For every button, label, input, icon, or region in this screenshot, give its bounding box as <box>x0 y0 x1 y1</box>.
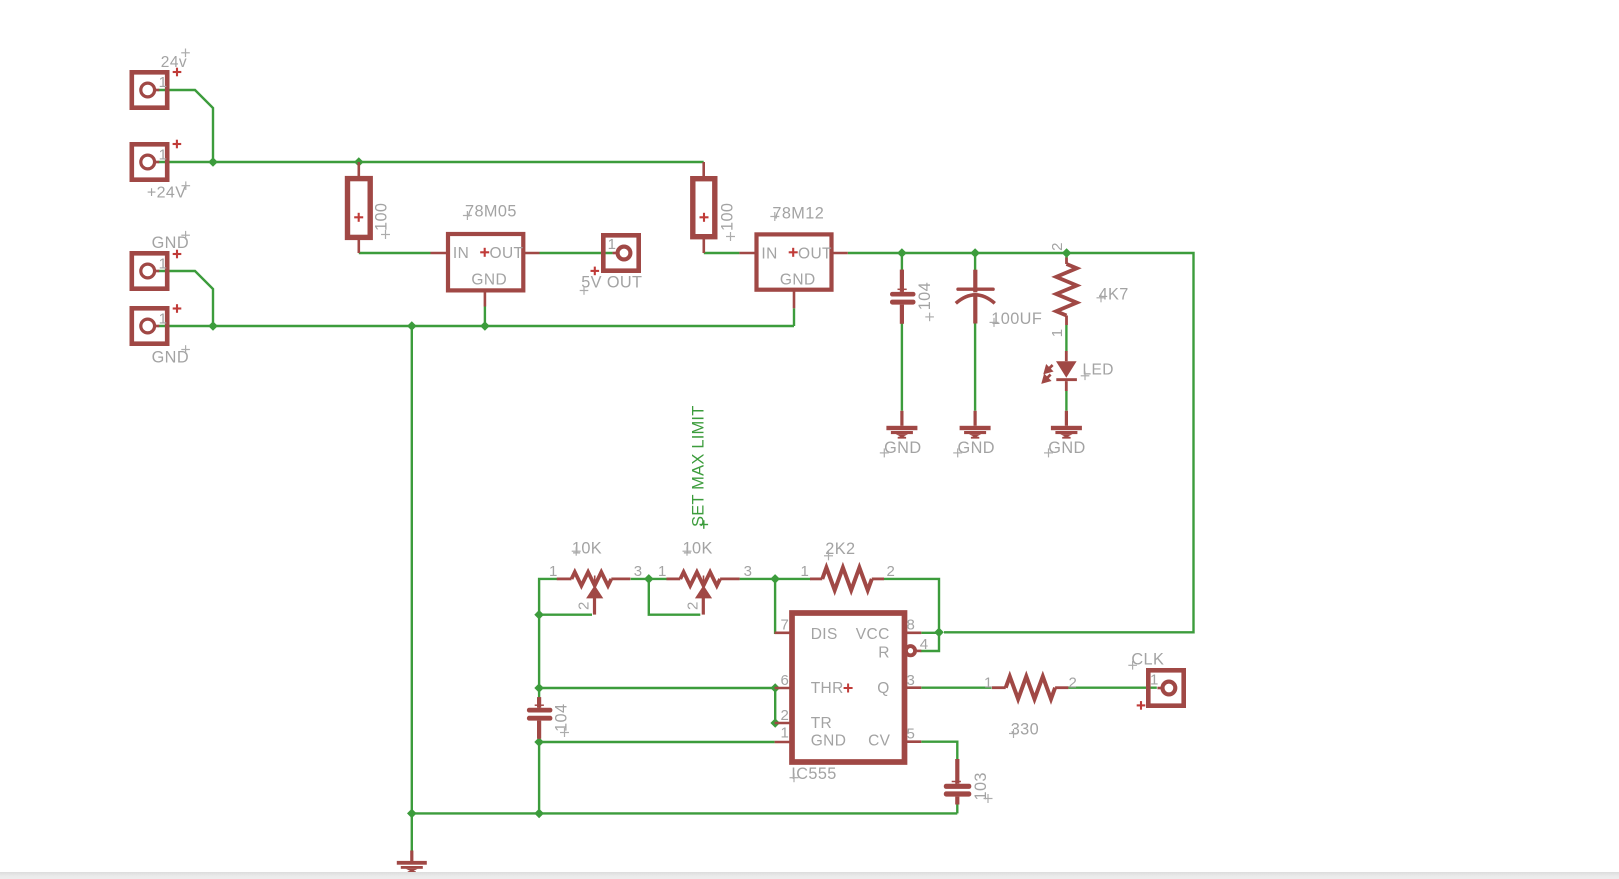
svg-text:3: 3 <box>634 563 643 580</box>
potentiometer POT2 10K body <box>667 572 740 615</box>
svg-text:2: 2 <box>576 601 593 610</box>
wire C1 bottom to GND <box>901 324 903 411</box>
svg-text:5V OUT: 5V OUT <box>581 274 642 292</box>
svg-text:+24V: +24V <box>147 185 186 202</box>
wire DIS node down to pin 7 <box>774 579 777 633</box>
wire VCC node to pin 8 <box>921 632 939 634</box>
label GND (C2) <box>953 439 995 458</box>
voltage regulator U1 78M05 body <box>448 234 524 290</box>
pin labels POT2 <box>658 563 752 610</box>
svg-text:8: 8 <box>907 617 916 634</box>
label 2K2 <box>824 540 855 560</box>
svg-text:3: 3 <box>744 563 753 580</box>
svg-text:1: 1 <box>549 563 558 580</box>
ground GND (under C2) <box>960 411 991 439</box>
pin OUT of U2 <box>832 252 848 255</box>
svg-text:SET MAX LIMIT: SET MAX LIMIT <box>690 406 708 527</box>
wire 78M05 GND to rail <box>484 307 486 327</box>
wire 78M05 OUT to 5V OUT pad <box>540 252 613 254</box>
label 330 <box>1009 721 1039 739</box>
label +24V <box>147 140 190 202</box>
label 4K7 <box>1097 285 1129 303</box>
svg-text:3: 3 <box>907 672 916 689</box>
svg-text:5: 5 <box>907 726 916 743</box>
svg-text:GND: GND <box>471 271 507 288</box>
svg-text:1: 1 <box>1049 329 1066 338</box>
resistor R4 330 body <box>992 676 1069 699</box>
svg-text:1: 1 <box>159 74 168 91</box>
svg-text:2: 2 <box>781 707 790 724</box>
wire THR net horizontal <box>539 687 775 689</box>
label 100UF <box>990 310 1043 328</box>
svg-text:R: R <box>878 644 890 661</box>
timer IC555 body <box>792 613 905 762</box>
svg-text:78M12: 78M12 <box>772 204 824 222</box>
wire POT1 wiper loop <box>539 614 592 616</box>
svg-text:1: 1 <box>984 675 993 692</box>
svg-text:24v: 24v <box>161 54 187 71</box>
node junction GND at 78M05 <box>480 321 490 331</box>
svg-text:104: 104 <box>553 704 571 732</box>
pin labels R4 <box>984 675 1077 692</box>
connector pad P2 "+24V" pin 1 <box>132 144 168 179</box>
pin 5 CV <box>905 726 922 743</box>
svg-text:OUT: OUT <box>798 245 832 262</box>
pin OUT of U1 <box>523 252 539 255</box>
svg-text:78M05: 78M05 <box>465 203 517 221</box>
label 104 (C3) <box>553 704 571 737</box>
svg-text:4: 4 <box>920 636 929 653</box>
svg-text:GND: GND <box>152 348 189 366</box>
svg-text:1: 1 <box>781 725 790 742</box>
connector pad 5V OUT pin 1 <box>603 235 638 270</box>
label GND (C1) <box>880 439 922 458</box>
node junction THR at C3 column <box>534 683 544 693</box>
wire CV net to C4 <box>921 742 957 759</box>
resistor R2 100 body <box>693 162 715 253</box>
ground GND (under LED) <box>1051 411 1082 439</box>
label IC555 <box>790 765 837 783</box>
pin IN of U2 <box>739 252 756 255</box>
wire pot chain left drop <box>539 579 557 686</box>
pin labels POT1 <box>549 563 643 610</box>
node junction VCC node <box>934 628 944 638</box>
wire C1 top lead <box>901 253 903 270</box>
wire R5 top lead <box>1065 253 1067 258</box>
node junction 12V at C2 <box>970 248 980 258</box>
ground earth (bottom) <box>397 851 427 873</box>
svg-text:IN: IN <box>453 245 469 262</box>
pin 2 TR <box>775 707 792 724</box>
bottom scrollbar strip <box>0 872 1619 879</box>
wire LED cathode to GND <box>1065 391 1067 411</box>
svg-text:1: 1 <box>159 311 168 328</box>
potentiometer POT1 10K body <box>557 572 631 615</box>
svg-text:GND: GND <box>958 439 995 457</box>
svg-text:1: 1 <box>608 236 617 253</box>
node junction bottom rail at C3 column <box>534 809 544 819</box>
svg-text:CLK: CLK <box>1131 651 1164 669</box>
node junction DIS node <box>770 574 780 584</box>
pin 6 THR <box>775 672 792 689</box>
label LED <box>1081 362 1114 381</box>
svg-text:GND: GND <box>780 271 816 288</box>
wire GND555 net to pin 1 <box>539 741 775 743</box>
wire 2K2 node to R3 pin 1 <box>775 578 810 580</box>
wire R5 to LED <box>1065 325 1067 352</box>
svg-text:6: 6 <box>781 672 790 689</box>
pin 3 Q <box>905 672 922 689</box>
pin 4 R (inverted) <box>906 636 929 655</box>
wire THR to TR vertical <box>774 688 776 723</box>
node junction +24V at R1 <box>354 157 364 167</box>
svg-text:103: 103 <box>972 772 990 800</box>
node junction between potentiometers <box>644 574 654 584</box>
svg-text:GND: GND <box>811 732 847 749</box>
capacitor C3 104 body <box>527 697 553 739</box>
connector pad P4 "GND" pin 1 <box>132 308 168 343</box>
capacitor C2 100UF body <box>956 270 995 324</box>
node junction bottom rail at earth column <box>407 809 417 819</box>
wire C3 bottom lead <box>538 739 540 814</box>
label 10K (POT1) <box>572 539 602 557</box>
node junction TR at pin 2 <box>770 718 780 728</box>
wire C2 bottom to GND <box>974 323 976 411</box>
svg-text:GND: GND <box>884 439 921 457</box>
label 5V OUT <box>580 267 643 295</box>
wire R2 to 78M12 IN <box>704 252 740 254</box>
svg-text:330: 330 <box>1011 721 1039 739</box>
wire GND rail <box>159 325 795 327</box>
connector pad P3 "GND" pin 1 <box>132 253 168 288</box>
wire POT2 pin3 to 2K2 node <box>740 578 776 580</box>
label 10K (POT2) <box>683 539 713 557</box>
resistor R1 100 body <box>348 162 371 253</box>
svg-text:2: 2 <box>1069 675 1078 692</box>
wire C4 bottom to rail <box>956 804 958 813</box>
label 78M05 <box>463 203 517 221</box>
label SET MAX LIMIT <box>690 406 709 529</box>
pin labels R5 <box>1049 242 1066 337</box>
resistor R3 2K2 body <box>810 568 884 591</box>
svg-text:2: 2 <box>887 563 896 580</box>
node junction GND555 at C3 <box>534 737 544 747</box>
capacitor C4 103 body <box>944 759 972 805</box>
svg-text:TR: TR <box>811 715 832 732</box>
label 24v <box>161 49 190 77</box>
wire 12V rail from 78M12 OUT <box>848 253 1194 632</box>
svg-text:IN: IN <box>761 245 777 262</box>
svg-text:CV: CV <box>868 732 891 749</box>
wire bottom GND rail <box>412 812 958 814</box>
wire +24V from pad P1 to main rail <box>159 90 214 160</box>
svg-text:Q: Q <box>877 680 889 697</box>
svg-text:DIS: DIS <box>811 626 838 643</box>
node junction 12V at C1 <box>897 248 907 258</box>
wire +24V top rail <box>159 161 704 163</box>
wire POT2 wiper loop <box>649 579 701 615</box>
resistor R5 4K7 body <box>1056 258 1077 326</box>
voltage regulator U2 78M12 body <box>757 234 833 289</box>
svg-text:7: 7 <box>781 617 790 634</box>
pin IN of U1 <box>431 252 449 255</box>
svg-text:GND: GND <box>152 234 189 252</box>
svg-text:100: 100 <box>719 203 737 231</box>
svg-text:100UF: 100UF <box>991 310 1042 328</box>
ground GND (under C1) <box>886 411 917 439</box>
pin GND of U2 <box>793 290 796 309</box>
node junction GND at earth column <box>407 321 417 331</box>
wire VCC node loop to pin 4 <box>921 632 940 651</box>
label GND (upper) <box>152 231 190 258</box>
pin GND of U1 <box>484 290 487 306</box>
capacitor C1 104 body <box>890 270 916 324</box>
wire R1 to 78M05 IN <box>359 252 431 254</box>
wire POT1 pin3 to POT2 pin1 <box>631 578 667 580</box>
wire R4 to CLK pad <box>1068 687 1156 689</box>
pin 1 GND <box>775 725 792 742</box>
svg-text:2: 2 <box>685 601 702 610</box>
pin 8 VCC <box>905 617 922 634</box>
svg-text:OUT: OUT <box>490 245 524 262</box>
connector pad P1 "24v" pin 1 <box>132 72 168 107</box>
label 100 (R1) <box>373 203 391 239</box>
node junction GND at pad P4 branch <box>208 321 218 331</box>
svg-text:1: 1 <box>1150 672 1159 689</box>
label GND (LED) <box>1044 439 1086 458</box>
svg-text:1: 1 <box>801 563 810 580</box>
node junction THR column at wiper loop <box>534 610 544 620</box>
connector pad CLK pin 1 <box>1148 670 1183 705</box>
label 104 (C1) <box>916 282 934 321</box>
label CLK <box>1128 651 1164 710</box>
svg-text:VCC: VCC <box>856 626 890 643</box>
pin labels R3 <box>801 563 896 580</box>
svg-text:100: 100 <box>373 203 391 231</box>
wire earth column <box>411 326 413 851</box>
pin 7 DIS <box>775 617 792 634</box>
LED D1 body <box>1043 351 1077 391</box>
svg-text:THR: THR <box>811 680 844 697</box>
svg-text:104: 104 <box>916 282 934 310</box>
label 78M12 <box>770 204 824 222</box>
node junction THR at pin 6 <box>770 683 780 693</box>
svg-text:1: 1 <box>159 147 168 164</box>
wire GND from pad P3 <box>159 271 214 324</box>
svg-text:1: 1 <box>658 563 667 580</box>
wire 78M12 GND to rail <box>793 308 795 326</box>
wire C3 top lead <box>538 688 540 698</box>
svg-text:GND: GND <box>1048 439 1085 457</box>
wire C2 top lead <box>974 253 976 270</box>
label GND (lower) <box>152 304 190 366</box>
label 100 (R2) <box>719 203 737 241</box>
svg-text:1: 1 <box>159 256 168 273</box>
wire Q net from pin 3 to R4 <box>921 687 991 689</box>
wire 2K2 to VCC corner <box>884 579 939 630</box>
svg-text:2: 2 <box>1049 242 1066 251</box>
node junction +24V at pad P2 branch <box>208 157 218 167</box>
label 103 <box>972 772 993 803</box>
svg-text:4K7: 4K7 <box>1099 285 1129 303</box>
node junction 12V at R5 <box>1062 248 1072 258</box>
svg-text:IC555: IC555 <box>791 765 836 783</box>
